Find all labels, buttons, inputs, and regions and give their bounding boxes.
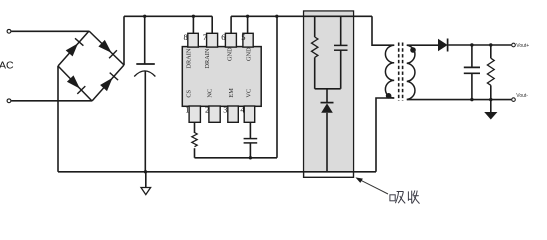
wire: bottom terminal to bridge bottom vertex: [11, 100, 92, 102]
wire: secondary top to output diode: [407, 44, 438, 46]
wire: top terminal to bridge top vertex: [11, 30, 89, 32]
pin 3: [228, 106, 239, 122]
wire: pin4 to C2: [249, 122, 251, 138]
pin 6: [225, 33, 236, 47]
output ground symbol: [484, 112, 497, 120]
output diode D6 triangle: [438, 39, 448, 52]
snubber resistor R2 zigzag: [312, 37, 318, 57]
svg-text:GND: GND: [227, 47, 234, 61]
bridge rectifier: lower-right edge: [92, 65, 124, 101]
svg-text:1: 1: [185, 105, 189, 115]
IC pins top: [188, 33, 255, 122]
junction: R2 top on GND net: [313, 15, 316, 18]
label 吸收: [390, 190, 420, 203]
junction: snubber RC to diode: [325, 87, 328, 90]
pin 5: [243, 33, 253, 47]
snubber resistor R2 bottom lead: [314, 57, 316, 88]
svg-text:DRAIN: DRAIN: [204, 48, 211, 68]
svg-text:2: 2: [205, 105, 209, 115]
primary polarity dot: [386, 93, 392, 99]
snubber capacitor C3 top lead: [340, 16, 342, 45]
junction: R3 bottom on Vout- wire: [489, 98, 492, 101]
transformer T1: [385, 43, 415, 102]
wire: pin5 drop: [247, 16, 249, 33]
GND net rail (net B): [231, 15, 372, 17]
wire: horizontal below IC: [195, 157, 278, 159]
pin 7: [207, 33, 218, 47]
ground rail (bottom): [58, 171, 376, 173]
pin 8: [188, 33, 199, 47]
svg-text:EM: EM: [228, 88, 235, 98]
wire: C2 to bottom wire: [249, 143, 251, 158]
wire: snubber diode anode down: [326, 113, 328, 172]
wire: bridge left vertex down to ground rail: [57, 66, 59, 172]
pin 1: [189, 106, 200, 122]
svg-text:6: 6: [221, 32, 225, 42]
output capacitor C4 plate1: [464, 66, 480, 68]
resistor R1 (CS) zigzag: [192, 133, 197, 147]
wire: RC to snubber diode: [326, 89, 328, 103]
filter capacitor C1 curved plate: [134, 71, 155, 77]
svg-text:8: 8: [184, 32, 188, 42]
output resistor R3 zigzag: [487, 58, 494, 85]
svg-text:VC: VC: [245, 89, 252, 98]
wire: secondary bottom to Vout-: [407, 99, 512, 101]
wire: primary bottom to drain drop: [376, 98, 394, 172]
bridge diode D1 (left->top): [66, 38, 84, 56]
secondary winding: [407, 45, 415, 99]
svg-text:AC: AC: [0, 60, 14, 72]
pin numbers: [184, 32, 246, 115]
AC terminal bottom: [7, 99, 11, 103]
output diode D6 cathode bar: [447, 39, 449, 52]
filter capacitor C1 top lead: [144, 16, 146, 64]
output ground stem: [490, 100, 492, 112]
svg-text:5: 5: [241, 32, 245, 42]
core line 2: [402, 43, 404, 102]
bridge rectifier: lower-left edge: [58, 66, 92, 101]
wire: vertical up to GND net: [276, 16, 278, 158]
junction: pin5 on GND net: [246, 15, 249, 18]
svg-text:NC: NC: [207, 89, 214, 98]
junction: C2 bottom on wire: [249, 156, 252, 159]
bridge diode D2 (top->right): [98, 40, 117, 58]
junction: C1 bottom on ground rail: [144, 170, 147, 173]
filter capacitor C1 bottom lead: [144, 71, 146, 172]
svg-text:3: 3: [223, 105, 227, 115]
snubber RC bottom wire: [315, 88, 341, 90]
svg-text:Vout+: Vout+: [516, 43, 529, 49]
wire: pin1 to R1: [194, 122, 196, 133]
wire: bridge right vertex up to +rail: [123, 16, 125, 65]
wire: net B to transformer primary top: [372, 16, 394, 45]
snubber capacitor C3 plate2: [334, 49, 348, 51]
ground symbol (open arrow): [141, 188, 151, 195]
wire: R1 to bottom wire: [194, 148, 196, 158]
output resistor R3 top lead: [490, 45, 492, 58]
IC pin labels (rotated): [185, 47, 252, 98]
net B rail through box: [304, 15, 354, 17]
bridge diode D3 (left->bottom): [67, 75, 85, 94]
snubber resistor R2 top lead: [314, 16, 316, 37]
Vout- terminal: [512, 98, 516, 102]
Vout+ terminal: [512, 43, 516, 47]
pin 2: [209, 106, 220, 122]
primary winding: [385, 45, 394, 98]
snubber box gray fill: [304, 12, 353, 172]
pin 4: [244, 106, 255, 122]
AC terminal top: [7, 29, 11, 33]
snubber diode D5 cathode bar: [321, 102, 334, 104]
output capacitor C4 bottom lead: [471, 73, 473, 99]
wire: pin8 drop: [192, 16, 194, 33]
annotation arrow to snubber box: [355, 177, 388, 194]
snubber box: [304, 11, 354, 177]
capacitor C2 plate2: [244, 142, 258, 144]
svg-text:Vout-: Vout-: [516, 93, 528, 99]
svg-text:7: 7: [203, 32, 207, 42]
junction: riser on GND net: [275, 15, 278, 18]
junction: C1 top on +rail: [143, 15, 146, 18]
snubber capacitor C3 plate1: [334, 44, 348, 46]
+rail (net A): [124, 15, 212, 17]
filter capacitor C1 top plate: [136, 63, 155, 65]
wire: output diode to Vout+: [449, 44, 512, 46]
core line 1: [398, 43, 400, 102]
snubber diode D5 triangle: [321, 103, 333, 112]
output capacitor C4 top lead: [471, 45, 473, 67]
bridge rectifier: upper-right edge: [89, 31, 124, 65]
bridge diode D4 (bottom->right): [100, 73, 118, 92]
capacitor C2 plate1: [244, 138, 258, 140]
output resistor R3 bottom lead: [490, 85, 492, 99]
junction: C3 top on GND net: [339, 15, 342, 18]
junction: C4 bottom on Vout- wire: [470, 98, 473, 101]
output capacitor C4 plate2: [464, 72, 480, 74]
svg-text:DRAIN: DRAIN: [185, 48, 192, 68]
bridge rectifier: upper-left edge: [58, 31, 89, 66]
junction: R3 top on Vout+ wire: [489, 43, 492, 46]
wire: pin7 drop: [211, 16, 213, 33]
svg-text:4: 4: [240, 105, 245, 115]
secondary polarity dot: [410, 47, 416, 53]
wire: pin6 drop: [230, 16, 232, 33]
IC U1 body: [182, 47, 261, 107]
junction: pin8 on +rail: [192, 15, 195, 18]
svg-text:GND: GND: [245, 47, 252, 61]
ground rail through box: [304, 171, 354, 173]
junction: C4 top on Vout+ wire: [470, 43, 473, 46]
snubber capacitor C3 bottom lead: [340, 50, 342, 89]
svg-text:CS: CS: [185, 89, 192, 97]
ground stem: [145, 172, 147, 188]
